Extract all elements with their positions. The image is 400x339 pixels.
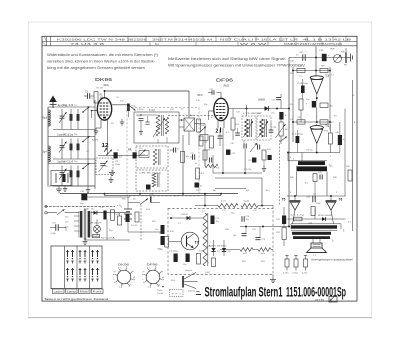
output bias caps [306,194,321,216]
electrolytic C74 [211,216,221,225]
base resistor R16 [160,233,182,251]
cap C17 [190,153,195,160]
DF96 coupling cap [230,128,240,145]
svg-text:Kurz: Kurz [93,291,103,294]
transistor T7 [181,232,199,250]
feed resistor R22 [241,201,273,209]
svg-text:C7: C7 [119,155,123,159]
svg-text:R50 500Ω: R50 500Ω [318,215,333,217]
svg-text:DK96: DK96 [118,263,129,267]
transistor T6 [326,198,343,211]
page fold line bottom [28,317,372,319]
svg-text:(+9V): (+9V) [205,272,210,274]
diode GY120 [170,214,202,220]
svg-text:1M: 1M [285,129,288,131]
svg-text:5µ10: 5µ10 [244,201,250,203]
svg-text:MNBNTZ4BTnMTPBNTHLNB: MNBNTZ4BTnMTPBNTHLNB [284,44,343,46]
cap C41 [299,52,305,61]
volume pot R14 [276,120,288,145]
tone switch [279,137,287,206]
mains dashed wire [44,205,115,207]
tuner cell 2 (trimmer C11a, caps, wave switch) [48,133,95,159]
svg-text:B-2: B-2 [155,43,160,46]
capacitor C21 [226,150,236,156]
keyboard caption [44,297,108,301]
bottom bus of tuner [47,185,95,187]
title lead mark [196,292,201,295]
svg-text:5n: 5n [296,55,298,57]
antenna coil L1 [42,110,50,126]
tuner right rail [88,100,95,189]
AGC line [213,172,262,174]
svg-text:Stromlaufplan Stern1: Stromlaufplan Stern1 [205,285,283,300]
T4 load resistor R33 [324,124,332,153]
lamp resistor 1 [283,256,289,275]
svg-text:2: 2 [216,129,219,135]
electrolytic C11 [100,207,107,220]
svg-text:(Rö1): (Rö1) [103,84,109,87]
svg-text:Tasten in nicht gedrücktem Zus: Tasten in nicht gedrücktem Zustand [44,297,108,301]
svg-text:K392506 LDC TW N 348 3825: K392506 LDC TW N 348 382556 [57,37,148,41]
svg-text:R4 25k: R4 25k [92,140,98,142]
antenna coil L2 [43,146,51,162]
volume cap C23 [272,94,282,109]
wire C7 line [98,155,148,157]
IF transformer 2 primary [242,116,256,140]
svg-text:S2 0,25A: S2 0,25A [101,236,116,239]
crystal filter box [184,115,195,131]
svg-text:80k: 80k [330,106,333,108]
electrolytic C61 [169,251,179,263]
resistor R30 [290,99,304,122]
svg-text:0,1Sw: 0,1Sw [292,273,298,275]
battery dashed link [140,205,142,240]
mixer wire to C7 line [107,130,109,156]
svg-text:170µ: 170µ [131,106,136,108]
labels diodes [207,244,228,247]
osc section couplings [179,119,189,145]
diode D1 [211,240,221,256]
label plus [297,75,309,85]
IFT2 feed [246,105,248,116]
svg-text:AH 6027: AH 6027 [89,222,103,225]
tube socket DK96 [113,266,134,287]
tuner cell 1 (trimmer C13, caps, wave switch) [48,104,95,130]
AGC dashed wire [168,114,215,116]
svg-text:NST CUA LI P 16 LA 12T LR: NST CUA LI P 16 LA 12T LR [220,37,298,41]
bold mark 12 [102,143,109,152]
svg-text:S1 A: S1 A [84,208,89,211]
IFT2 secondary load [254,144,272,172]
electrolytic C43 [301,79,305,99]
resistor R31 [297,117,305,124]
resistor R25 [320,66,328,73]
svg-text:Tr.1: Tr.1 [329,165,334,168]
top bus drop [188,91,190,118]
svg-text:4L.1 B 13 42 LB: 4L.1 B 13 42 LB [303,37,352,41]
audio left bus [288,58,290,227]
svg-text:b: b [330,298,332,302]
svg-text:g2: g2 [162,277,164,279]
svg-text:T5: T5 [282,198,286,202]
label 100p [149,194,155,196]
coupling cap C16 [170,148,176,153]
svg-text:kung mit die angegebenen Grenz: kung mit die angegebenen Grenzen geänder… [47,66,145,70]
svg-text:Kl.H.: Kl.H. [171,280,176,282]
resistor R27 [297,66,305,73]
bias resistor R47 [290,214,306,221]
top bus wire [104,90,189,92]
svg-text:T6: T6 [339,198,343,202]
electrolytic C62 [183,254,190,266]
title-block table text [57,37,352,46]
T4 feed wire [292,121,331,123]
resistor R5 [199,136,203,146]
detector junction [276,108,278,110]
padder trimmer box [96,158,113,175]
output transformer [286,224,346,243]
resistor R10 [177,148,190,162]
preamp output wire [240,226,290,228]
tube DK96 left lead [91,110,98,118]
HT bus [60,193,238,196]
T3 feed wire [292,70,331,72]
pot R29 with switch [334,55,342,63]
capacitor C52 [50,223,66,235]
tube DF96 [214,98,228,120]
tube DK96 legs [96,120,108,130]
svg-text:(Rö2): (Rö2) [223,84,229,87]
svg-text:äußerer: äußerer [188,290,196,293]
svg-text:Widerstände und Kondensatoren,: Widerstände und Kondensatoren, die mit e… [47,53,158,57]
ground padder [109,177,114,183]
driver transformer Tr1 [288,159,333,172]
svg-text:T7: T7 [195,241,199,245]
preamp caps right [242,216,267,241]
electrolytic C44 [306,99,316,108]
note lamps [311,259,353,262]
polarity pictogram [170,290,184,297]
audio top wire [289,57,346,59]
rectifier wire [90,212,130,214]
label BF2 [198,93,204,97]
resistor R9 [205,136,214,148]
drawing frame border [42,36,357,301]
svg-text:5n: 5n [117,150,119,152]
detector wire [228,108,289,110]
ground AGC [63,186,68,192]
capacitor C18 [195,183,204,188]
svg-text:Punkt: Punkt [158,292,164,295]
svg-text:Mit Spannungsmesser gemessen m: Mit Spannungsmesser gemessen mit Univers… [168,63,306,67]
transistor T3 [310,74,329,94]
Tr1 below parts [313,172,323,196]
svg-text:g4: g4 [158,285,160,287]
svg-text:R13 25k: R13 25k [244,169,251,171]
mains terminals [45,205,47,214]
ground top mid [109,170,115,176]
power right parts [85,213,130,240]
tube DF96 legs [218,121,224,129]
battery switch [128,197,160,205]
bias wire mid [215,188,246,190]
svg-text:0,5k: 0,5k [290,104,294,106]
output stage top wire [287,195,346,197]
svg-text:Lang: Lang [67,291,77,294]
electrolytic C50 [276,207,286,224]
IF transformer 2 secondary [257,116,271,140]
misc value labels [63,52,356,275]
T3 collector rail [315,47,317,77]
screen rail vertical [182,135,184,194]
screen parts column [203,150,212,166]
T4 left parts [292,130,304,153]
svg-text:CPL76,5±0,5: CPL76,5±0,5 [139,172,163,174]
svg-text:g4: g4 [129,285,131,287]
bold mark 2 [216,128,221,135]
tube socket DF96 [142,266,163,287]
transistor T4 [310,124,329,144]
svg-text:k: k [114,279,115,281]
AVC feed wire [215,178,263,206]
transistor T5 [282,198,301,211]
svg-text:T4: T4 [325,124,329,128]
screen resistor R11 [205,155,218,168]
keyboard switch block [51,246,102,289]
preamp ground [270,274,276,282]
transformer taps [65,216,80,231]
label DF96 [216,78,234,88]
svg-text:1k: 1k [195,163,197,165]
switch into osc box [112,104,136,110]
bottom resistor R23 [220,248,253,255]
bias wire [288,218,346,220]
detector diode OA685 [265,106,269,111]
svg-text:Meßwerte beziehen sich auf Ste: Meßwerte beziehen sich auf Stellung MW o… [168,57,286,61]
bottom resistor R24 [253,248,273,255]
resistor R17 [197,251,204,265]
speaker wires [313,239,320,243]
label C9 [115,161,121,166]
note text left [47,53,158,70]
svg-text:Laden: Laden [54,291,64,294]
svg-text:3n: 3n [174,196,176,198]
svg-text:g1: g1 [143,271,145,273]
electrolytic bank [155,225,165,245]
svg-text:+ ÷ –: + ÷ – [172,293,183,296]
switch on C7 line right [140,150,146,156]
svg-text:GY120: GY120 [181,214,189,216]
svg-text:DF96: DF96 [147,263,158,267]
svg-text:100p: 100p [115,164,121,166]
power transformer primary [79,208,89,238]
resistor R26 [317,103,333,122]
svg-text:C47 5µ: C47 5µ [306,150,313,152]
svg-text:03 5 58: 03 5 58 [315,298,324,302]
socket label DK96 [118,263,129,267]
title-block table grid [42,36,357,46]
audio mid junction [288,94,318,109]
tube DK96 [97,98,111,120]
svg-text:3×1,5V: 3×1,5V [131,224,138,227]
driver input wire [287,144,340,162]
power transformer core [84,209,86,240]
lamp resistor 2 [292,256,298,275]
svg-text:(+): (+) [299,75,302,77]
svg-text:0,05µ: 0,05µ [51,233,57,235]
color dot note [158,286,164,296]
socket DF96 pin labels [143,268,165,289]
label DK96 [95,77,113,87]
svg-text:Spul: Spul [42,117,47,120]
svg-text:3µ4: 3µ4 [43,151,48,154]
socket DK96 pin labels [114,268,136,289]
ground below DK96 [94,128,99,134]
svg-text:+150µ: +150µ [169,251,179,253]
AGC box [51,171,72,186]
preamp module dashed box [168,208,273,274]
svg-text:5×1,8: 5×1,8 [149,109,156,112]
svg-text:g1: g1 [114,271,116,273]
svg-text:Farb-: Farb- [158,289,163,292]
dial lamp [89,219,103,234]
socket label DF96 [147,263,158,267]
svg-text:5×21: 5×21 [221,200,227,203]
resistor R32 [320,120,334,124]
grid resistor R1 [94,92,103,104]
electrolytic C10 [80,191,130,205]
loudspeaker [307,243,327,257]
svg-text:W 8 W: W 8 W [240,43,268,46]
svg-text:(b+): (b+) [266,190,270,192]
svg-text:4,5V: 4,5V [146,209,151,211]
scanned page edge [29,22,372,318]
svg-text:0,1Sw: 0,1Sw [283,273,289,275]
svg-text:Mittel: Mittel [80,291,90,294]
ferrite rod line [47,107,49,185]
svg-text:näherer: näherer [185,269,192,272]
feed resistor R21 [195,200,238,208]
driver rail right [345,48,353,231]
svg-text:0A685: 0A685 [258,99,266,102]
label +0.5 [308,223,313,225]
svg-text:versehen sind, können in ihren: versehen sind, können in ihren Werten ±1… [47,60,155,64]
audio frame verticals [293,67,330,142]
IF coil box L21 [136,170,168,191]
lamp resistor 3 [302,256,308,275]
tuner cell 3 (trimmer C14, caps, wave switch) [48,160,95,186]
feed drop [204,194,206,207]
ground tuner right [86,187,91,193]
label OA685 [258,99,266,102]
resistor R6 [196,168,205,179]
fuse S2 [93,235,116,240]
grid cap C13 [208,89,221,99]
keyboard contacts [66,250,99,282]
cap C20 [218,130,223,146]
battery bottom wire [128,231,162,233]
resistor R4 [197,119,206,132]
svg-text:k: k [143,279,144,281]
detector filter [269,122,277,132]
svg-text:5µ2n: 5µ2n [261,253,266,255]
electrolytic C46 [335,122,345,153]
capacitor C7 [114,152,123,158]
driver choke [202,211,208,267]
earphone jack [346,53,353,64]
svg-text:1,5 1,7µ: 1,5 1,7µ [290,214,306,216]
svg-text:Anzeigelampen austauschbar!: Anzeigelampen austauschbar! [311,259,353,262]
resistor R19 [207,258,216,267]
svg-text:BF2: BF2 [198,93,204,97]
output stage connections [293,196,334,224]
svg-text:C12 3n: C12 3n [137,109,143,111]
tube DF96 left lead [209,111,214,120]
earphone jack pictogram [171,269,198,292]
keyboard labels [53,289,104,294]
bias diode [318,215,333,221]
battery resistor [135,212,139,222]
title text [205,285,347,300]
electrolytic C24 [279,112,286,120]
DF96 coupling resistor [231,109,240,141]
oscillator enclosure dashed [127,108,199,197]
resistor R51 [111,210,121,221]
diode D2 [222,240,232,256]
resistor R37 [276,224,286,246]
svg-text:0A665 0Y665: 0A665 0Y665 [207,244,228,247]
svg-text:DF96: DF96 [216,78,234,83]
wire osc to DF96 [195,124,206,156]
svg-text:3NST.M 4314-45535 M: 3NST.M 4314-45535 M [152,37,212,41]
IFT2 label [243,113,263,115]
tube DK96 top lead [104,91,106,98]
DF96 anode drop [213,128,223,173]
grid capacitor C2 [84,92,94,99]
power transformer secondary [88,211,91,238]
svg-text:0,5 10µ: 0,5 10µ [292,134,304,136]
IF coil box L20 [136,146,168,168]
svg-text:DK96: DK96 [95,77,113,82]
switch on C7 line left [106,150,112,156]
svg-text:R2 1M: R2 1M [97,88,103,90]
title sub note [315,297,337,303]
svg-text:C43 50µ: C43 50µ [297,83,309,85]
rectifier diode [91,209,97,215]
battery cells [121,203,133,233]
capacitor C8 [128,149,137,158]
transformer ground [83,239,88,245]
output stage feeds [297,172,328,197]
cathode cap C5 [120,101,137,126]
oscillator coil box L5 [134,109,179,143]
IFT2 bottom parts [244,140,257,173]
junction on audio top [315,57,317,59]
note text right [168,57,306,67]
svg-text:g2: g2 [133,277,135,279]
svg-text:T3: T3 [325,74,329,78]
electrolytic C42 [319,49,335,62]
svg-text:73 U3 3 8: 73 U3 3 8 [70,43,106,46]
ground tuner left [56,186,62,192]
mains switch [47,209,79,214]
svg-text:0,25w: 0,25w [302,273,308,275]
antenna [49,96,57,109]
switch below DF96 [200,127,209,141]
